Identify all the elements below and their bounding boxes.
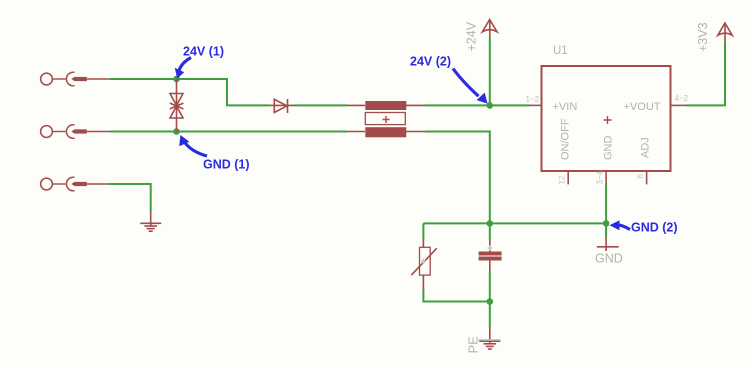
svg-text:+VOUT: +VOUT	[624, 101, 661, 113]
svg-text:GND (2): GND (2)	[631, 221, 678, 235]
svg-text:GND: GND	[603, 136, 615, 161]
svg-text:PE: PE	[466, 336, 481, 354]
svg-text:ADJ: ADJ	[640, 137, 652, 158]
svg-text:ON/OFF: ON/OFF	[560, 118, 572, 160]
svg-text:3~4: 3~4	[596, 170, 605, 184]
svg-text:24V (2): 24V (2)	[410, 55, 451, 69]
svg-text:+VIN: +VIN	[553, 101, 578, 113]
svg-text:+3V3: +3V3	[696, 22, 710, 52]
svg-text:4~2: 4~2	[675, 94, 689, 103]
svg-text:GND: GND	[595, 252, 623, 266]
svg-text:+24V: +24V	[465, 21, 479, 51]
svg-text:GND (1): GND (1)	[203, 158, 250, 172]
svg-text:6: 6	[636, 174, 645, 179]
svg-text:U1: U1	[553, 45, 568, 57]
svg-text:12: 12	[558, 175, 567, 184]
svg-text:24V (1): 24V (1)	[183, 45, 224, 59]
svg-text:1~2: 1~2	[526, 95, 540, 104]
